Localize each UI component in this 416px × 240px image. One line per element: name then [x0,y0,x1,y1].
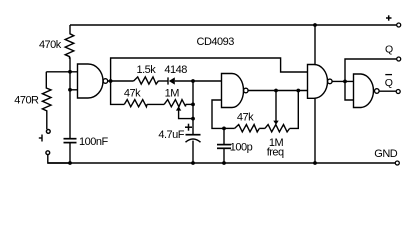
svg-text:freq: freq [267,146,284,158]
wire switch to ground rail [48,155,70,163]
wiper arrow VR2 [273,121,278,125]
node 100p [222,126,226,130]
svg-text:100nF: 100nF [79,136,108,148]
svg-text:GND: GND [374,148,398,160]
svg-text:CD4093: CD4093 [197,36,235,48]
wire Q output [345,59,397,81]
plus sign supply [386,17,392,19]
wire gate4 output Qbar [379,90,396,92]
node C2 ground [191,161,195,165]
terminal Qbar [396,90,400,94]
resistor R5 47k [235,125,260,132]
NAND gate U1a [78,64,104,98]
resistor R1 470k [65,25,74,72]
terminal Q [397,57,401,61]
svg-text:470k: 470k [39,39,62,51]
terminal GND [395,161,399,165]
wire feedback top to gate U1c [111,58,308,81]
switch S1 push button [46,130,50,134]
wire gate3 output [332,80,353,82]
node timing [191,79,195,83]
node gate3 output [343,80,347,84]
svg-text:470R: 470R [14,94,39,106]
wire V- stub gate3 to ground [314,98,316,163]
resistor R2 470R [42,72,51,130]
svg-text:4.7uF: 4.7uF [158,129,184,141]
wire gate1 input B [70,89,78,91]
node gate3 ground [313,161,317,165]
svg-text:47k: 47k [237,112,254,124]
wire gate1 output down to R3 row [111,81,125,104]
node gate1 output [109,79,113,83]
overbar Qbar [385,74,392,76]
wire 470k to gate input node [69,72,71,138]
node C1 ground [68,161,72,165]
svg-text:Q: Q [385,43,393,55]
node C3 ground [222,161,226,165]
wire VR2 to output column [290,91,299,129]
terminal + [397,23,401,27]
wire R5 to VR2 [259,127,265,129]
wire R3 to D1 [159,80,168,82]
NAND gate U1d [354,74,374,108]
svg-text:47k: 47k [124,87,141,99]
diode D1 4148 [167,77,169,84]
node R row joins timing column [191,103,195,107]
wire V+ stub to gate U1c [314,25,316,65]
capacitor C1 100nF [64,138,77,140]
node wiper2 [274,89,278,93]
resistor R4 47k [124,100,147,107]
svg-text:1.5k: 1.5k [137,64,157,76]
node wiper join [191,117,195,121]
svg-text:100p: 100p [230,141,253,153]
wire gate2 input B loop [212,100,224,128]
NAND gate U1b [222,74,244,108]
potentiometer VR2 1M freq [265,125,290,132]
wire top supply rail [70,24,397,26]
node top rail to U1c power [313,23,317,27]
wire input line to gate U1a [46,71,77,73]
wire R4 to VR1 [147,103,164,105]
wire gate4 input B loop [345,81,354,100]
wire gate1 output [108,80,134,82]
plus sign C2 [185,126,192,128]
svg-text:4148: 4148 [164,64,187,76]
resistor R3 1.5k [134,77,159,84]
node VR2 return [296,89,300,93]
NAND gate U1c [308,65,328,99]
wire VR1 to timing node [186,103,193,105]
wire D1 to gate U1b input [175,80,222,82]
wire gate2 output [248,90,307,92]
capacitor C2 4.7uF electrolytic [186,134,201,136]
node gate1 input B [68,88,72,92]
node gate1 input A [68,70,72,74]
wire node to R5 [224,127,235,129]
potentiometer VR1 1M [164,100,186,107]
svg-text:1M: 1M [165,87,180,99]
capacitor C3 100p [223,128,225,144]
wire timing column [192,81,194,135]
wiper arrow VR1 [176,106,181,110]
wire bottom ground rail [48,162,395,164]
svg-text:Q: Q [385,77,393,89]
